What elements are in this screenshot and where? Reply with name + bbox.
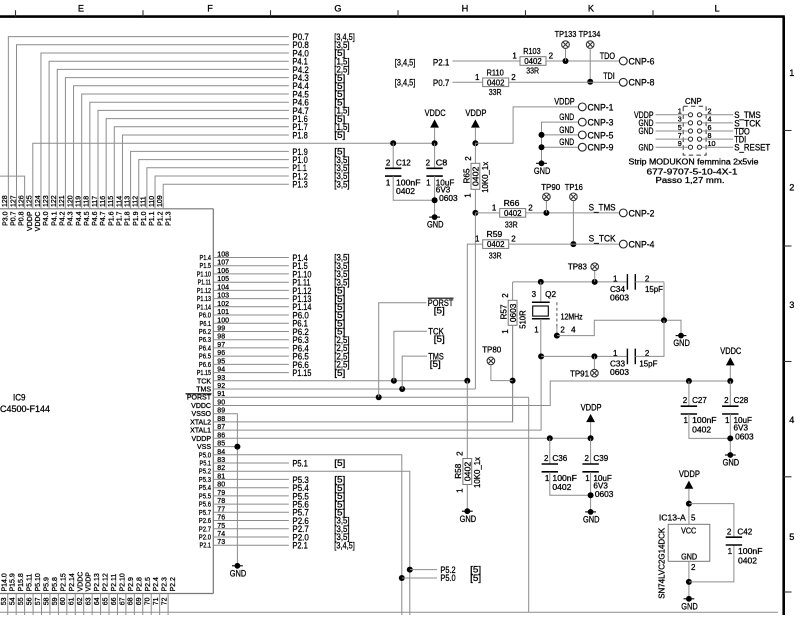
svg-text:CNP-3: CNP-3 (588, 117, 614, 128)
wire net VSS from IC9 pin 85 (213, 444, 240, 450)
node label P2.1 [3,4,5] (left) (395, 57, 450, 68)
svg-text:0603: 0603 (610, 368, 630, 377)
wire net P4.0 from IC9 top pin (41, 53, 289, 209)
svg-text:[3,4,5]: [3,4,5] (395, 57, 416, 67)
wire net VDDC rail from IC9 top pin 125 (33, 143, 435, 209)
node label P6.4 (292, 342, 349, 353)
wire net P1.14 from IC9 pin 102 (213, 306, 289, 308)
node label P2.1 (292, 540, 354, 551)
junction TP90 tap (543, 201, 549, 216)
wire net P0.8 from IC9 top pin (17, 45, 289, 209)
svg-text:P2.7: P2.7 (199, 526, 211, 533)
svg-text:VDDP: VDDP (27, 211, 34, 231)
connector pad CNP-4 (619, 239, 654, 250)
svg-text:Passo 1,27 mm.: Passo 1,27 mm. (656, 176, 725, 185)
svg-text:P2.9: P2.9 (128, 577, 135, 592)
svg-text:P2.1: P2.1 (200, 543, 212, 550)
svg-text:PORST: PORST (187, 395, 212, 402)
svg-text:P2.5: P2.5 (145, 577, 152, 592)
connector pad CNP-1 (578, 101, 613, 112)
wire net P6.1 from IC9 pin 100 (213, 322, 289, 324)
node label P1.0 (292, 154, 349, 165)
svg-text:P2.2: P2.2 (170, 577, 177, 592)
svg-text:S_RESET: S_RESET (734, 142, 770, 153)
svg-text:P2.12: P2.12 (103, 573, 110, 591)
svg-text:1: 1 (585, 474, 590, 483)
capacitor C42 100nF 0402 (726, 527, 763, 565)
svg-text:59: 59 (52, 597, 59, 605)
node label P5.0 [5] (440, 572, 481, 583)
svg-text:P1.1: P1.1 (149, 211, 156, 226)
wire IC13 GND pin 2 (686, 561, 696, 599)
svg-text:H: H (462, 3, 469, 13)
ground symbol GND below C8 (427, 214, 444, 229)
wire long horizontal net at sheet bottom (0, 611, 778, 613)
crystal Q2 12MHz (532, 282, 583, 357)
svg-text:GND: GND (427, 219, 444, 230)
svg-text:L: L (714, 3, 719, 13)
wire net P2.7 from IC9 pin 75 (213, 528, 289, 530)
svg-text:TDO: TDO (600, 50, 615, 61)
svg-text:P1.10: P1.10 (197, 271, 211, 278)
svg-text:GND: GND (723, 457, 740, 468)
svg-text:2: 2 (511, 73, 516, 82)
svg-text:[5]: [5] (430, 359, 441, 369)
svg-text:CNP-2: CNP-2 (629, 207, 655, 218)
wire R65/R66 node down to TMS (474, 213, 476, 389)
node label P6.6 (292, 359, 349, 370)
svg-text:GND: GND (639, 141, 654, 152)
connector pad CNP-5 (578, 129, 613, 140)
wire crystal top net (513, 281, 628, 283)
wire C27 bottom to C28 bottom (689, 414, 730, 438)
IC9 bottom pin names (inside) (1, 572, 177, 592)
svg-text:1: 1 (464, 193, 473, 198)
svg-text:S_TCK: S_TCK (589, 233, 617, 244)
svg-text:2: 2 (544, 454, 549, 463)
svg-text:4: 4 (571, 326, 576, 335)
svg-text:4: 4 (789, 415, 794, 425)
svg-text:10K0_1x: 10K0_1x (481, 162, 490, 193)
svg-text:2: 2 (426, 158, 431, 167)
wire net P6.4 from IC9 pin 97 (213, 347, 289, 349)
svg-text:12MHz: 12MHz (561, 312, 583, 321)
wire TP134 down to TDI (587, 48, 593, 84)
testpoint TP83 (568, 263, 599, 272)
svg-text:677-9707-5-10-4X-1: 677-9707-5-10-4X-1 (647, 167, 739, 176)
svg-text:R103: R103 (523, 47, 541, 56)
node label P5.2 [5] (440, 564, 481, 575)
svg-text:P4.0: P4.0 (43, 211, 50, 226)
svg-text:P2.1: P2.1 (292, 540, 307, 551)
wire net P1.13 from IC9 pin 103 (213, 298, 289, 300)
svg-text:C27: C27 (692, 396, 707, 405)
ground symbol GND below C28 (723, 452, 740, 468)
wire C39 bottom to GND (588, 472, 594, 512)
svg-text:0402: 0402 (464, 461, 473, 481)
junction C28 on VDDC rail (727, 378, 733, 406)
svg-text:1: 1 (789, 68, 794, 78)
svg-text:[3,5]: [3,5] (334, 179, 349, 189)
svg-text:VDDC: VDDC (191, 403, 211, 410)
svg-text:0402: 0402 (396, 187, 416, 196)
resistor R59 33R 0402 (475, 230, 516, 260)
wire net P1.5 from IC9 pin 107 (213, 265, 289, 267)
svg-text:P2.15: P2.15 (60, 573, 67, 591)
junction R65 bottom / R66 input (472, 210, 499, 216)
svg-text:TP133: TP133 (555, 30, 577, 39)
svg-text:0402: 0402 (692, 425, 712, 434)
wire net P6.6 from IC9 pin 95 (213, 363, 289, 365)
svg-text:P4.7: P4.7 (100, 211, 107, 226)
svg-text:6V3: 6V3 (734, 424, 749, 433)
wire net S_TCK from R59 to CNP-4 (509, 243, 620, 245)
svg-text:P6.0: P6.0 (199, 313, 211, 320)
svg-text:1: 1 (534, 326, 539, 335)
svg-text:TP134: TP134 (579, 30, 601, 39)
wire net P5.6 from IC9 pin 78 (213, 503, 289, 505)
node label P4.0 (292, 47, 345, 58)
svg-text:P2.6: P2.6 (199, 518, 211, 525)
svg-text:P0.8: P0.8 (19, 211, 26, 226)
wire TP16 down to S_TCK row (570, 201, 576, 248)
junction P5.2 label tap (407, 567, 437, 573)
wire net P6.5 from IC9 pin 96 (213, 355, 289, 357)
svg-text:P5.0: P5.0 (199, 452, 211, 459)
node label P2.0 (292, 531, 349, 542)
node label P5.3 (292, 474, 345, 485)
wire net P5.3 from IC9 pin 81 (213, 478, 289, 480)
wire net S_TMS from R66 to CNP-2 (526, 212, 620, 214)
svg-text:C28: C28 (734, 396, 749, 405)
svg-text:VSSO: VSSO (192, 411, 212, 418)
wire net VDDC from IC9 pin 90 jog to caps rail (213, 381, 730, 406)
wire net P6.2 from IC9 pin 99 (213, 331, 289, 333)
svg-text:P0.7: P0.7 (11, 211, 18, 226)
svg-text:1: 1 (613, 274, 618, 283)
svg-text:5: 5 (789, 532, 794, 542)
node label P1.11 (292, 277, 349, 288)
wire C12 bottom to C8 bottom (393, 176, 434, 200)
svg-text:0603: 0603 (610, 293, 630, 302)
ground symbol GND for CNP pads (534, 160, 551, 175)
svg-text:GND: GND (534, 165, 551, 176)
svg-text:[5]: [5] (334, 130, 345, 140)
node label P1.7 (292, 121, 349, 132)
svg-text:[5]: [5] (434, 306, 445, 316)
svg-text:P6.2: P6.2 (199, 329, 211, 336)
svg-text:2: 2 (456, 451, 465, 456)
node label P5.6 (292, 499, 345, 510)
svg-text:10K0_1x: 10K0_1x (473, 457, 482, 488)
wire VDDP to CNP-1 jog (475, 107, 578, 143)
wire net P1.8 from IC9 top pin (122, 135, 288, 209)
svg-text:10: 10 (708, 139, 716, 148)
svg-text:P14.0: P14.0 (1, 573, 8, 591)
svg-text:63: 63 (86, 597, 93, 605)
svg-text:GND: GND (681, 600, 698, 611)
svg-text:68: 68 (128, 597, 135, 605)
wire net P5.1 from IC9 pin 83 (213, 462, 289, 464)
svg-text:3: 3 (789, 300, 794, 310)
svg-text:P6.4: P6.4 (199, 345, 211, 352)
junction TMS label tap (399, 356, 427, 392)
svg-text:2: 2 (724, 396, 729, 405)
svg-text:1: 1 (512, 52, 517, 61)
node label P2.6 (292, 515, 349, 526)
IC9 top pin numbers 128-109 (2, 195, 164, 207)
svg-text:CNP-9: CNP-9 (588, 142, 614, 153)
node label P4.7 (292, 105, 349, 116)
wire net P1.12 from IC9 pin 104 (213, 289, 289, 291)
junction TP133 tap on TDO (563, 48, 569, 64)
node label P1.3 (292, 179, 349, 190)
svg-text:70: 70 (145, 597, 152, 605)
svg-text:72: 72 (162, 597, 169, 605)
svg-text:F: F (207, 3, 213, 13)
wire IC13 GND to C42 bottom (689, 545, 734, 582)
svg-text:VDDP: VDDP (581, 402, 602, 413)
svg-text:1: 1 (475, 235, 480, 244)
capacitor C12 100nF 0402 (385, 158, 421, 196)
node label P6.5 (292, 351, 349, 362)
svg-text:P4.2: P4.2 (59, 211, 66, 226)
node label P1.10 (292, 268, 349, 279)
node label P0.7 (292, 31, 354, 42)
wire net TDO from R103 to CNP-6 (546, 60, 619, 62)
testpoint TP16 (565, 183, 584, 201)
svg-text:2: 2 (386, 158, 391, 167)
svg-text:2: 2 (727, 527, 732, 536)
svg-text:Strip MODUKON femmina 2x5vie: Strip MODUKON femmina 2x5vie (629, 157, 760, 166)
row numbers (789, 68, 794, 542)
junction TP83 tap (592, 271, 598, 285)
wire VDDP to C42 top (689, 504, 734, 538)
sheet frame right border (784, 17, 792, 615)
svg-text:C42: C42 (737, 527, 752, 536)
wire C36 bottom to C39 bottom (550, 472, 591, 496)
svg-text:100nF: 100nF (738, 547, 763, 556)
svg-text:P1.9: P1.9 (133, 211, 140, 226)
capacitor C39 10uF 6V3 0603 (582, 454, 614, 499)
svg-text:33R: 33R (526, 67, 539, 76)
node label P5.4 (292, 482, 345, 493)
svg-text:2: 2 (560, 326, 565, 335)
svg-text:P1.13: P1.13 (197, 296, 211, 303)
svg-text:VDDP: VDDP (86, 572, 93, 592)
svg-text:CNP: CNP (685, 97, 702, 106)
CNP description text (629, 157, 760, 185)
wire net VSSO from IC9 pin 89 down (213, 414, 237, 566)
svg-text:71: 71 (153, 597, 160, 605)
svg-text:2: 2 (789, 183, 794, 193)
svg-text:P1.8: P1.8 (292, 129, 307, 140)
svg-text:0402: 0402 (504, 209, 522, 218)
junction TP91 tap (591, 353, 597, 369)
svg-text:SN74LVC2G14DCK: SN74LVC2G14DCK (658, 527, 667, 599)
IC IC9 outline (0, 209, 213, 594)
ground symbol GND crystal case (673, 333, 690, 349)
wire net PORST from IC9 pin 91 (213, 396, 528, 398)
svg-text:1: 1 (725, 416, 730, 425)
svg-text:CNP-8: CNP-8 (629, 77, 655, 88)
svg-text:P2.14: P2.14 (69, 573, 76, 591)
svg-text:[5]: [5] (470, 565, 481, 575)
svg-text:CNP-4: CNP-4 (629, 239, 655, 250)
svg-text:GND: GND (673, 337, 690, 348)
wire net XTAL1 from IC9 pin 87 jog up to crystal (213, 356, 541, 430)
svg-text:2: 2 (501, 293, 510, 298)
svg-text:55: 55 (18, 597, 25, 605)
svg-text:GND: GND (559, 124, 574, 135)
wire net P2.0 from IC9 pin 74 (213, 536, 289, 538)
capacitor C34 15pF 0603 (series top) (610, 274, 667, 323)
node label P6.3 (292, 334, 349, 345)
wire net P1.2 from IC9 top pin (155, 176, 289, 209)
svg-text:0402: 0402 (487, 78, 505, 87)
resistor R103 33R 0402 (512, 47, 553, 75)
svg-text:VDDP: VDDP (465, 107, 486, 118)
svg-text:P1.11: P1.11 (198, 280, 211, 287)
column letters (78, 3, 720, 13)
node label P1.13 (292, 293, 345, 304)
svg-text:[3,4,5]: [3,4,5] (395, 78, 416, 88)
wire net P5.0 from IC9 pin 84 down to bottom (213, 455, 401, 615)
svg-text:P1.12: P1.12 (197, 288, 211, 295)
junction TCK label tap (391, 331, 427, 384)
svg-text:53: 53 (1, 597, 8, 605)
svg-text:2: 2 (683, 396, 688, 405)
svg-text:P5.3: P5.3 (199, 477, 211, 484)
capacitor C33 15pF 0603 (series bottom) (610, 320, 664, 377)
svg-text:VDDC: VDDC (77, 572, 84, 592)
wire net P4.7 from IC9 top pin (98, 110, 289, 208)
svg-text:P2.4: P2.4 (153, 577, 160, 592)
wire net P0.7 to R110 (453, 81, 483, 83)
node label P5.5 (292, 490, 345, 501)
svg-text:P5.1: P5.1 (200, 461, 212, 468)
IC9 bottom pin wires (0, 594, 168, 616)
svg-text:GND: GND (460, 513, 477, 524)
wire crystal bottom net (538, 353, 627, 359)
node label P1.12 (292, 285, 345, 296)
svg-text:P6.5: P6.5 (199, 354, 211, 361)
svg-text:9: 9 (678, 139, 682, 148)
svg-text:P6.1: P6.1 (200, 321, 212, 328)
wire net P2.6 from IC9 pin 76 (213, 520, 289, 522)
wire net VDDP from IC9 pin 86 to caps (213, 437, 590, 439)
wire net GND to CNP-3/5/9 (539, 122, 579, 163)
svg-text:5: 5 (691, 514, 696, 523)
junction PORST label tap (376, 303, 427, 401)
ground symbol GND below C39 (583, 509, 600, 525)
svg-text:VDDC: VDDC (425, 107, 446, 118)
wire net TDI from R110 to CNP-8 (509, 81, 620, 83)
svg-text:TP80: TP80 (482, 345, 502, 354)
wire C28 bottom to GND (727, 414, 733, 455)
svg-text:P5.4: P5.4 (199, 485, 211, 492)
svg-text:C4500-F144: C4500-F144 (0, 403, 50, 414)
node label P1.2 (292, 170, 349, 181)
svg-text:2: 2 (511, 235, 516, 244)
wire C8 bottom to GND (432, 176, 438, 217)
connector pad CNP-8 (619, 77, 654, 88)
svg-text:VDDC: VDDC (35, 212, 42, 232)
svg-text:[5]: [5] (334, 368, 345, 378)
svg-text:C8: C8 (436, 158, 448, 167)
svg-text:P2.13: P2.13 (94, 573, 101, 591)
node label P1.8 (292, 129, 345, 140)
connector pad CNP-6 (619, 55, 654, 66)
svg-text:R66: R66 (504, 199, 520, 208)
svg-text:3: 3 (532, 290, 537, 299)
svg-text:P5.2: P5.2 (440, 564, 455, 575)
resistor R57 510R 0603 (vertical) (500, 282, 528, 422)
svg-text:P5.10: P5.10 (35, 573, 42, 591)
testpoint TP134 (586, 41, 594, 49)
svg-text:1: 1 (613, 349, 618, 358)
svg-text:P1.3: P1.3 (165, 211, 172, 226)
svg-text:R110: R110 (487, 68, 505, 77)
svg-text:TP16: TP16 (565, 183, 584, 192)
svg-text:510R: 510R (518, 310, 527, 329)
svg-text:33R: 33R (505, 220, 518, 229)
svg-text:GND: GND (559, 111, 574, 122)
svg-text:E: E (78, 3, 84, 13)
svg-text:2: 2 (584, 454, 589, 463)
svg-text:1: 1 (456, 488, 465, 493)
svg-text:P1.15: P1.15 (197, 370, 211, 377)
connector pad CNP-9 (578, 142, 613, 153)
node label P0.7 [3,4,5] (left) (395, 77, 450, 88)
connector pad CNP-3 (578, 117, 613, 128)
svg-text:P6.3: P6.3 (199, 337, 211, 344)
ground symbol GND below IC13 (681, 596, 698, 612)
wire net TMS from IC9 pin 92 (213, 388, 475, 390)
gate IC13-A SN74LVC2G14DCK (658, 514, 710, 599)
node label P6.2 (292, 326, 345, 337)
node label P0.8 (292, 39, 349, 50)
IC9 right side pin numbers (217, 252, 229, 547)
wire net P4.4 from IC9 top pin (74, 86, 289, 209)
node label P4.2 (292, 64, 349, 75)
wire net P1.11 from IC9 pin 105 (213, 281, 289, 283)
svg-text:0603: 0603 (735, 432, 754, 441)
CNP right labels (734, 109, 770, 152)
svg-text:XTAL2: XTAL2 (190, 419, 211, 426)
wire net VDDP from IC9 top pin 126 exits left (0, 176, 25, 209)
svg-text:GND: GND (559, 136, 574, 147)
wire net P2.1 to R103 (453, 60, 521, 62)
svg-text:67: 67 (119, 597, 126, 605)
svg-text:S_TMS: S_TMS (589, 201, 616, 212)
svg-text:CNP-1: CNP-1 (588, 101, 614, 112)
svg-text:Q2: Q2 (545, 290, 557, 299)
svg-text:TDI: TDI (603, 70, 615, 81)
IC9 top pin names (2, 211, 172, 231)
node label P4.3 (292, 72, 345, 83)
svg-text:XTAL1: XTAL1 (190, 428, 211, 435)
sheet frame top border (0, 10, 785, 16)
wire net P1.15 from IC9 pin 94 (213, 372, 289, 374)
svg-text:P2.10: P2.10 (119, 573, 126, 591)
svg-text:1: 1 (545, 474, 550, 483)
node label P4.1 (292, 56, 349, 67)
svg-text:CNP-6: CNP-6 (629, 55, 655, 66)
svg-text:VSS: VSS (197, 444, 211, 451)
svg-text:15pF: 15pF (645, 285, 663, 294)
svg-text:15pF: 15pF (639, 360, 657, 369)
